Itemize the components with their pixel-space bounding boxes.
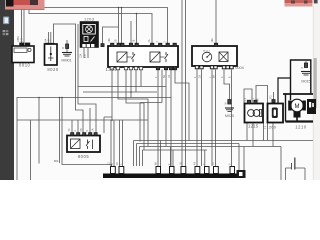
component 8020 [45, 43, 58, 65]
wire bottom bus A [134, 140, 314, 142]
cable M015 loop [291, 60, 311, 100]
svg-text:6A: 6A [213, 75, 216, 78]
svg-text:2B: 2B [199, 75, 202, 78]
0004 top pin [214, 43, 217, 46]
svg-text:7C: 7C [68, 128, 71, 131]
left toolbar panel [0, 0, 14, 180]
wire loop over 1215 [244, 89, 252, 104]
svg-text:8 B: 8 B [84, 54, 87, 58]
svg-text:1C: 1C [212, 162, 215, 165]
component 8810 [12, 43, 34, 63]
ground M015 [301, 60, 311, 75]
svg-text:2 B: 2 B [48, 39, 51, 43]
wire h86 [78, 86, 166, 88]
wire bottom bus C [140, 146, 282, 148]
wire loop 1215 to C1260 [256, 86, 268, 104]
selected component top-right [285, 0, 313, 7]
component 1203 [80, 22, 99, 48]
svg-text:2B: 2B [115, 39, 118, 42]
svg-text:10A: 10A [108, 38, 111, 43]
svg-text:1304: 1304 [106, 67, 117, 72]
wire vertical x30 [30, 120, 32, 180]
1304 bottom pin boxes [110, 67, 176, 70]
svg-text:M020: M020 [225, 114, 234, 118]
svg-text:5A: 5A [163, 75, 166, 78]
pin for loop leg at 1304 [101, 44, 104, 47]
svg-text:1A: 1A [92, 128, 95, 131]
svg-text:8A: 8A [155, 162, 158, 165]
svg-text:4B: 4B [80, 128, 83, 131]
svg-text:1210: 1210 [295, 124, 306, 129]
svg-text:1A: 1A [257, 98, 260, 101]
svg-text:12A: 12A [80, 53, 83, 58]
wire vertical x17 [16, 97, 18, 180]
wire battery leads [286, 168, 306, 180]
selected component top-left [5, 0, 45, 10]
wire 0004 bottom pins down [196, 70, 198, 167]
wire 1304 far right pins [165, 70, 167, 147]
wire 1215 bottoms down [246, 123, 248, 141]
wire 1304 right pins down [158, 70, 162, 167]
svg-text:MM01: MM01 [61, 59, 71, 63]
bar pin connectors [111, 167, 235, 174]
wire h120 [17, 119, 148, 121]
wire staircase to bottom pins [160, 141, 162, 167]
ground MM01 [62, 44, 72, 56]
relay K1 coil [117, 52, 127, 62]
wire v281 down [280, 147, 282, 181]
scrollbar track [313, 0, 320, 180]
svg-text:C1260: C1260 [263, 125, 276, 130]
cable 1210 left [285, 94, 287, 122]
wire drop H2 to 1304 pin [136, 14, 138, 44]
wire 1304 p4 to h97 [130, 70, 132, 98]
scrollbar thumb [314, 58, 317, 108]
wire drop to 1304 pin 3 [130, 21, 132, 44]
svg-text:M015: M015 [301, 80, 310, 84]
battery BB00 [292, 158, 295, 170]
ground M020 [225, 100, 234, 112]
wire pair to bar left pins [110, 120, 112, 166]
wire h92 [83, 91, 157, 93]
svg-text:1215: 1215 [248, 124, 259, 129]
wire bottom bus D [143, 149, 208, 151]
wire pair long left of 0004 [181, 0, 183, 166]
wire MM01 stem [66, 40, 68, 52]
wire C1260 pin stub [273, 92, 275, 100]
scrollbar top arrow [314, 0, 318, 3]
wire 1304 p5 to h92 [135, 70, 137, 93]
wire bb pins left [238, 144, 240, 171]
svg-text:B00: B00 [54, 160, 59, 163]
wire h102 [140, 102, 162, 104]
wire top rail 2 [29, 9, 152, 44]
svg-text:4B: 4B [194, 162, 197, 165]
wire 1304 p2 route [118, 70, 148, 147]
relay K2 contact [165, 52, 169, 62]
wire 0004 pin to M020 [224, 70, 230, 100]
svg-text:M: M [62, 47, 65, 49]
cable 1210 bottom bus [286, 120, 314, 122]
wire pair into 8810 [21, 9, 23, 43]
svg-text:8810: 8810 [19, 63, 30, 68]
svg-text:0004: 0004 [235, 66, 243, 70]
wire pair x59 x62 [59, 98, 61, 164]
relay K1 contact [132, 52, 136, 62]
wire h97 [17, 97, 171, 99]
toolbar grid icon [3, 30, 9, 35]
component 1215 [245, 100, 264, 122]
wire C1260 bottom down [272, 123, 274, 147]
relay K2 coil [150, 52, 160, 62]
wire loop 8020 to down pair [54, 24, 84, 133]
wire 1304 p3 route [126, 70, 144, 151]
toolbar document icon [3, 17, 9, 25]
wire 1304 p6 to h86 [140, 70, 142, 87]
svg-text:C: C [120, 163, 123, 165]
wire 8005 top stubs [71, 120, 73, 133]
svg-text:8020: 8020 [47, 67, 58, 72]
svg-text:4A: 4A [148, 39, 151, 42]
component C1260 [268, 100, 284, 123]
wire loop over 1203 to 1304 [103, 27, 119, 44]
connector pin bottom-right [237, 170, 246, 178]
svg-text:M: M [295, 104, 300, 110]
junction dots [38, 7, 137, 121]
svg-text:1B: 1B [168, 75, 171, 78]
wire pair into 8020 [48, 32, 50, 44]
svg-text:8005: 8005 [78, 154, 89, 159]
wire drops H1 to 1304 pins [118, 8, 120, 44]
svg-text:16A: 16A [211, 38, 214, 43]
0004 bottom pins [195, 66, 233, 69]
svg-text:M: M [225, 103, 228, 105]
wire 1215 right bottom down [263, 123, 265, 141]
wire long vertical to 0004 top [215, 0, 217, 44]
cable motor terminal stub [296, 117, 298, 122]
canvas background [0, 0, 320, 180]
cable 1210 top bus [283, 93, 313, 95]
svg-text:R 2: R 2 [252, 97, 255, 101]
component 0004 [192, 43, 237, 69]
wire top rail 1 [45, 8, 168, 44]
wire vertical x39 [38, 98, 40, 164]
component 1304 [108, 43, 178, 70]
wire bottom bus B [137, 143, 240, 145]
cable loop to C1260 [278, 78, 291, 104]
svg-text:M 12 4: M 12 4 [203, 51, 210, 53]
svg-text:1203: 1203 [84, 17, 95, 22]
component 8005 [67, 133, 100, 152]
wire C1260 left bottom down [267, 123, 269, 141]
wire jog 1304 pin to x189 [175, 70, 189, 141]
wire 1203 bottom stubs [83, 48, 85, 59]
wire v140 [139, 103, 141, 142]
wire second of pair to 8005 [78, 24, 96, 133]
wire 1304 p1 down to h120 [111, 70, 113, 121]
component 1210 starter [288, 99, 316, 118]
wire pin stub [204, 150, 206, 166]
ECU 1320 top edge bar [103, 174, 237, 179]
svg-text:2 C: 2 C [21, 38, 24, 42]
1304 top pin boxes [111, 43, 177, 46]
